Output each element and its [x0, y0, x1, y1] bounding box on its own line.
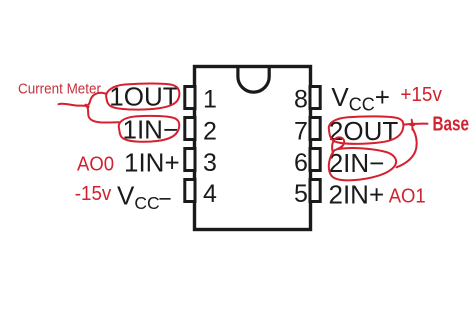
svg-text:AO0: AO0	[77, 153, 114, 175]
svg-text:6: 6	[294, 149, 308, 177]
pin 5	[310, 180, 320, 202]
dash from 2OUT circle to Base	[405, 123, 428, 126]
tick cross at dash	[411, 120, 414, 130]
svg-text:7: 7	[294, 118, 308, 146]
svg-text:2IN−: 2IN−	[329, 148, 385, 178]
leader branch up to 1OUT circle	[87, 93, 107, 106]
svg-text:2: 2	[203, 118, 217, 146]
svg-text:5: 5	[294, 180, 308, 208]
pin 8	[310, 87, 320, 109]
svg-text:Base: Base	[433, 114, 470, 136]
svg-text:3: 3	[203, 149, 217, 177]
leader line from Current Meter	[59, 104, 87, 106]
leader junction dot	[86, 105, 88, 107]
pin 7	[310, 118, 320, 140]
pin 3	[185, 149, 195, 171]
svg-text:Current Meter: Current Meter	[18, 80, 101, 97]
svg-text:-15v: -15v	[75, 183, 112, 205]
op-amp U1 body (8-pin DIP outline)	[195, 67, 311, 230]
red circle around 2OUT	[329, 116, 404, 143]
svg-text:1: 1	[203, 86, 217, 114]
pin 1	[185, 87, 195, 109]
pin 4	[185, 180, 195, 202]
svg-text:+15v: +15v	[400, 83, 442, 106]
svg-text:2IN+: 2IN+	[329, 180, 385, 210]
pin-1 notch	[238, 68, 269, 92]
svg-text:1IN+: 1IN+	[124, 148, 180, 178]
red circle around 1IN-	[119, 116, 179, 142]
svg-text:4: 4	[203, 180, 217, 208]
leader branch down to 1IN- circle	[87, 106, 119, 123]
connector curve from Base junction to 2IN- circle	[397, 129, 417, 168]
red circle around 1OUT	[106, 83, 179, 109]
svg-text:8: 8	[294, 86, 308, 114]
pin 6	[310, 149, 320, 171]
red circle around 2IN-	[329, 137, 396, 180]
pin 2	[185, 118, 195, 140]
svg-text:AO1: AO1	[389, 185, 426, 207]
junction dot at dash	[411, 123, 414, 126]
